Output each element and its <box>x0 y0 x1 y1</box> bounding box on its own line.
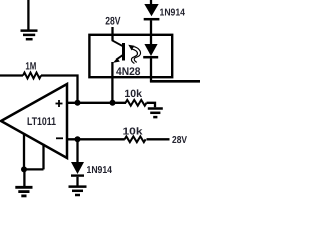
op-amp U1 LT1011 triangle <box>1 84 67 158</box>
ground (bottom-left) <box>15 187 32 196</box>
junction dot (diode branch on - net) <box>75 136 81 142</box>
light arrows <box>131 47 140 64</box>
ground (right of R2) <box>148 109 163 118</box>
wire: R2 to ground corner <box>147 103 156 108</box>
wire: bottom pins tie <box>24 168 44 170</box>
svg-text:10k: 10k <box>124 88 142 100</box>
svg-text:LT1011: LT1011 <box>27 116 56 128</box>
wire: from R1 to feedback corner, down to + input <box>41 76 78 103</box>
ground (below D2) <box>69 187 87 195</box>
junction dot (feedback to +) <box>75 100 81 106</box>
wire: R3 to 28V label <box>147 138 170 140</box>
junction dot (emitter to +) <box>110 100 116 106</box>
wire: + input net <box>67 102 126 104</box>
svg-text:28V: 28V <box>172 135 187 146</box>
resistor R3 10k zigzag on - net <box>125 136 146 142</box>
wire: to bottom-left ground <box>23 169 25 186</box>
wire: top edge to diode D1 <box>150 0 152 5</box>
wire: op-amp bottom pin 2 <box>42 144 44 170</box>
wire: 28V to collector <box>111 27 113 41</box>
wire: D1 to LED <box>150 20 152 44</box>
opto LED diode (down) <box>144 44 157 56</box>
diode D1 1N914 (down) <box>144 4 158 16</box>
svg-text:4N28: 4N28 <box>116 66 141 78</box>
resistor R2 10k zigzag on + net <box>126 100 147 106</box>
opto-isolator U2 4N28 box <box>89 35 172 77</box>
svg-text:10k: 10k <box>123 127 144 138</box>
wire: - net down to diode D2 <box>76 139 78 162</box>
wire: to right edge <box>150 80 200 83</box>
wire: LED cathode out of box <box>150 58 152 82</box>
resistor R1 1M zigzag <box>23 73 41 79</box>
wire: op-amp bottom pin 1 <box>23 133 25 169</box>
svg-text:1N914: 1N914 <box>87 165 113 176</box>
transistor emitter <box>116 55 122 59</box>
svg-text:1N914: 1N914 <box>160 7 186 18</box>
minus symbol <box>56 137 63 139</box>
svg-text:1M: 1M <box>25 60 36 72</box>
plus symbol <box>56 100 63 107</box>
ground (top-left) <box>21 31 38 40</box>
wire: output/feedback net at y=75.5 <box>0 74 23 76</box>
wire: emitter down to + net <box>111 62 113 103</box>
wire: top-left ground stub <box>27 0 29 30</box>
diode D2 1N914 (down) <box>71 162 84 174</box>
wire: - input net <box>67 138 125 140</box>
junction dot (bottom pins) <box>21 166 27 172</box>
wire: D2 to ground <box>76 177 78 186</box>
svg-text:28V: 28V <box>105 16 121 28</box>
transistor base bar <box>122 43 125 61</box>
